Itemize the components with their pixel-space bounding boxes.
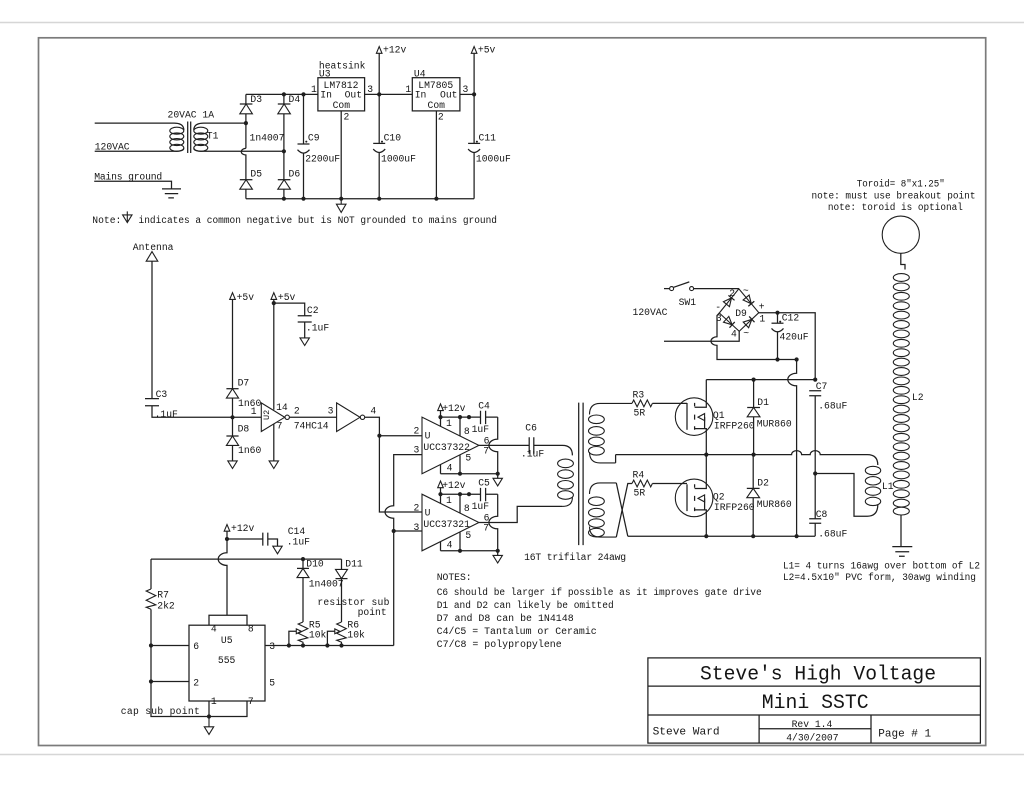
node pin1 rail U2: [438, 492, 442, 496]
title block: [648, 658, 981, 744]
L1 L2 notes: [783, 560, 980, 583]
switch SW1: [664, 282, 696, 308]
svg-text:4: 4: [447, 462, 453, 473]
svg-text:4: 4: [211, 624, 217, 635]
power +12v arrow (UCC37321): [438, 480, 466, 494]
node C9 top rail: [301, 92, 305, 96]
svg-text:R7: R7: [157, 590, 169, 601]
svg-text:4: 4: [447, 539, 453, 550]
svg-text:L1= 4 turns 16awg over bottom: L1= 4 turns 16awg over bottom of L2: [783, 560, 980, 571]
power +12v arrow (555): [224, 523, 254, 539]
svg-text:C4: C4: [478, 400, 490, 411]
capacitor C10 1000uF: [373, 94, 416, 197]
120VAC mains label: [633, 307, 668, 318]
node pin5 rail U2: [458, 549, 462, 553]
resistor R3 5R: [632, 390, 652, 419]
node R5 wiper rail: [287, 643, 291, 647]
svg-text:D7 and D8 can be 1N4148: D7 and D8 can be 1N4148: [437, 613, 574, 624]
regulator U4 LM7805: [405, 68, 468, 122]
svg-text:5: 5: [269, 678, 275, 689]
svg-text:IRFP260: IRFP260: [714, 502, 755, 513]
node 555 ground: [207, 714, 211, 718]
svg-text:1uF: 1uF: [472, 501, 490, 512]
svg-text:D3: D3: [250, 94, 262, 105]
svg-text:2: 2: [414, 426, 420, 437]
node C9 bottom rail: [301, 197, 305, 201]
svg-text:heatsink: heatsink: [319, 60, 366, 71]
svg-text:3: 3: [367, 84, 373, 95]
svg-text:-: -: [715, 302, 721, 313]
gate driver U2 UCC37321: [414, 494, 490, 551]
svg-text:L1: L1: [882, 481, 894, 492]
gate driver U1 UCC37322: [414, 417, 490, 474]
node pin5 rail: [458, 472, 462, 476]
svg-text:1000uF: 1000uF: [476, 154, 511, 165]
svg-text:C9: C9: [308, 132, 320, 143]
capacitor C8 .68uF: [809, 474, 847, 540]
ground C2 common negative: [300, 338, 309, 346]
svg-text:C11: C11: [479, 132, 497, 143]
wire toroid to L2: [901, 253, 905, 269]
toroid topload: [812, 178, 976, 253]
svg-text:C12: C12: [782, 313, 800, 324]
svg-text:D1 and D2 can likely be omitte: D1 and D2 can likely be omitted: [437, 600, 614, 611]
wire 555 enable riser with hop: [385, 455, 422, 646]
capacitor C14 .1uF: [227, 526, 310, 548]
svg-text:note: must use breakout point: note: must use breakout point: [812, 191, 976, 202]
wire UCC37321 vcc rail: [441, 493, 498, 495]
svg-text:SW1: SW1: [679, 297, 697, 308]
svg-text:10k: 10k: [309, 630, 327, 641]
wire common negative bottom rail: [246, 198, 474, 200]
wire 120VAC primary top: [95, 123, 184, 130]
node D10 top: [301, 557, 305, 561]
faint top window line: [0, 22, 1024, 24]
inverter U2A 74HC14: [251, 402, 329, 461]
svg-text:1: 1: [446, 495, 452, 506]
antenna: [133, 242, 174, 398]
wire bridge negative with hop over mains return: [711, 313, 797, 360]
svg-text:5: 5: [465, 453, 471, 464]
svg-text:U5: U5: [221, 635, 233, 646]
svg-text:5R: 5R: [634, 488, 646, 499]
transformer GDT secondary bottom: [589, 483, 617, 537]
wire enable to UCC37321 pin3: [394, 530, 422, 532]
diode D4 1n4007: [278, 94, 301, 180]
wire R4 to Q2 gate: [652, 483, 687, 485]
svg-text:1: 1: [759, 313, 765, 324]
svg-text:5R: 5R: [634, 407, 646, 418]
node enable to UCC37321 pin3: [392, 529, 396, 533]
wire C5 bypass down with hop: [489, 494, 498, 555]
svg-text:IRFP260: IRFP260: [714, 421, 755, 432]
wire T1 secondary bottom to bridge (passes under hop): [194, 149, 284, 152]
wire UCC37322 vcc rail: [441, 416, 498, 418]
svg-text:+5v: +5v: [478, 45, 496, 56]
svg-text:MUR860: MUR860: [757, 499, 792, 510]
svg-text:120VAC: 120VAC: [633, 307, 668, 318]
node pin1 rail: [438, 415, 442, 419]
node R5 bottom rail: [301, 643, 305, 647]
capacitor C11 1000uF: [468, 94, 511, 198]
svg-text:C2: C2: [307, 305, 319, 316]
svg-text:Out: Out: [440, 90, 457, 101]
mains earth ground symbol: [162, 189, 181, 198]
node R6 wiper rail: [325, 643, 329, 647]
svg-text:~: ~: [743, 328, 749, 339]
svg-text:8: 8: [464, 503, 470, 514]
svg-text:4: 4: [731, 329, 737, 340]
svg-text:point: point: [358, 607, 387, 618]
power +5v arrow (logic): [271, 292, 296, 303]
wire C4 bypass down with hop: [489, 417, 498, 478]
svg-text:7: 7: [483, 446, 489, 457]
svg-text:2: 2: [438, 111, 444, 122]
ground UCC37321 common negative: [493, 555, 502, 563]
capacitor C4 1uF: [472, 400, 490, 435]
wire U4 com down: [435, 111, 437, 199]
wire 120VAC return to bridge pin4: [664, 331, 739, 341]
svg-text:UCC37322: UCC37322: [423, 442, 470, 453]
svg-text:3: 3: [328, 406, 334, 417]
svg-text:+12v: +12v: [442, 403, 465, 414]
svg-text:In: In: [320, 90, 332, 101]
svg-text:6: 6: [193, 641, 199, 652]
wire UCC37321 output to GDT: [479, 506, 563, 522]
svg-text:20VAC 1A: 20VAC 1A: [168, 109, 215, 120]
node pin6 junction: [149, 643, 153, 647]
svg-text:NOTES:: NOTES:: [437, 572, 472, 583]
earth ground L2: [892, 547, 912, 557]
svg-text:In: In: [415, 90, 427, 101]
node D6 bottom rail: [282, 197, 286, 201]
svg-text:indicates a common negative bu: indicates a common negative but is NOT g…: [139, 215, 498, 226]
capacitor C3 .1uF: [145, 389, 261, 420]
svg-text:10k: 10k: [347, 630, 365, 641]
diode D2 MUR860: [747, 455, 792, 537]
svg-text:U4: U4: [414, 68, 426, 79]
common negative symbol below rail: [336, 199, 346, 213]
svg-text:7: 7: [248, 696, 254, 707]
wire C6 to GDT primary: [534, 445, 573, 455]
svg-text:D5: D5: [250, 169, 262, 180]
node D1 bottom mid rail: [752, 453, 756, 457]
svg-text:1n60: 1n60: [238, 445, 261, 456]
wire negative feed down with hop over positive bus: [788, 360, 797, 537]
ground pin7 common negative: [269, 461, 278, 469]
node secondary top / D3: [244, 121, 248, 125]
svg-text:1: 1: [446, 418, 452, 429]
capacitor C2 .1uF: [274, 303, 330, 338]
wire U3 com down: [340, 111, 342, 199]
ground UCC37322 common negative: [493, 478, 502, 486]
svg-text:8: 8: [248, 624, 254, 635]
node U4 com at rail: [434, 197, 438, 201]
node drive signal branch: [377, 434, 381, 438]
diode D11 1n4007: [309, 558, 363, 622]
wire bridge positive to C7 corner: [759, 313, 815, 380]
svg-text:2: 2: [729, 288, 735, 299]
power +5v arrow (clamp): [230, 292, 255, 389]
node C12 top: [775, 311, 779, 315]
power +5v arrow top: [471, 45, 495, 95]
svg-text:2: 2: [294, 406, 300, 417]
wire drive to UCC37322 pin2: [379, 435, 422, 437]
node Q1 source mid rail: [704, 453, 708, 457]
diode D7 1n60: [226, 377, 261, 417]
node bridge negative at bus: [795, 534, 799, 538]
svg-text:Antenna: Antenna: [133, 242, 174, 253]
svg-text:8: 8: [464, 426, 470, 437]
transformer GDT core: [524, 403, 626, 563]
node C7 C8 midpoint: [813, 471, 817, 475]
svg-text:2: 2: [344, 111, 350, 122]
resistor R7 2k2: [146, 559, 175, 645]
svg-text:1000uF: 1000uF: [381, 154, 416, 165]
node Q2 source negative bus: [704, 534, 708, 538]
svg-text:120VAC: 120VAC: [95, 142, 130, 153]
svg-text:3: 3: [414, 522, 420, 533]
wire inverter1 out to inverter2 in: [289, 416, 336, 418]
wire +12v down to 555 with hop: [218, 539, 227, 615]
node pin8 rail: [458, 415, 462, 419]
svg-text:7: 7: [277, 420, 283, 431]
wire inverter2 out down to drivers: [365, 417, 422, 512]
svg-text:1n4007: 1n4007: [250, 133, 285, 144]
svg-text:Com: Com: [428, 100, 446, 111]
wire R7 to 555 pin6: [151, 645, 189, 647]
svg-text:Rev 1.4: Rev 1.4: [792, 719, 833, 730]
wire crossover to negative bus: [616, 483, 628, 536]
node positive bus / C7: [813, 378, 817, 382]
wire U4 out to +5v node: [460, 93, 474, 95]
svg-text:C7/C8 = polypropylene: C7/C8 = polypropylene: [437, 639, 562, 650]
svg-text:2200uF: 2200uF: [305, 154, 340, 165]
wire R3 to Q1 gate: [652, 402, 687, 404]
wire crossover to R4: [616, 484, 632, 538]
svg-text:D10: D10: [306, 558, 324, 569]
node +5v branch to C2: [272, 301, 276, 305]
svg-text:C3: C3: [156, 389, 168, 400]
potentiometer R6 10k: [327, 620, 365, 646]
mosfet Q1 IRFP260: [675, 380, 754, 455]
faint bottom window line: [0, 754, 1024, 756]
svg-text:U: U: [425, 507, 431, 518]
wire T1 secondary top to bridge: [194, 123, 246, 130]
wire bias rail R7 to D11: [151, 558, 342, 560]
svg-text:C5: C5: [478, 477, 490, 488]
wire hop D3-D5 branch over secondary-bottom wire: [241, 148, 246, 179]
svg-text:D6: D6: [289, 169, 301, 180]
node +12v rail: [377, 92, 381, 96]
node antenna wire / clamp: [230, 415, 234, 419]
node U3 com at rail: [339, 197, 343, 201]
node +12v to C14: [225, 537, 229, 541]
capacitor C6 .1uF: [521, 423, 544, 460]
ground 555 common negative: [204, 717, 213, 735]
wire raw DC top rail: [246, 93, 318, 95]
wire UCC37322 output: [479, 444, 529, 446]
svg-text:Q1: Q1: [713, 410, 725, 421]
svg-text:+12v: +12v: [383, 45, 406, 56]
svg-text:U2: U2: [262, 410, 272, 420]
svg-text:2: 2: [193, 678, 199, 689]
svg-text:cap sub point: cap sub point: [121, 706, 200, 717]
svg-text:D9: D9: [735, 308, 747, 319]
svg-text:+: +: [759, 302, 765, 313]
node D4 top rail: [282, 92, 286, 96]
svg-text:D11: D11: [345, 558, 363, 569]
svg-text:5: 5: [465, 530, 471, 541]
svg-text:~: ~: [743, 286, 749, 297]
power +12v arrow top: [376, 45, 406, 95]
bridge rectifier D9: [715, 286, 765, 340]
wire SW1 to bridge: [694, 288, 739, 290]
svg-text:+5v: +5v: [237, 292, 255, 303]
inductor L2 secondary coil: [893, 274, 923, 515]
resistor sub point label: [317, 597, 389, 618]
svg-text:+5v: +5v: [278, 292, 296, 303]
wire UCC37322 gnd rail: [441, 473, 498, 475]
svg-text:4: 4: [370, 406, 376, 417]
svg-text:L2: L2: [912, 392, 924, 403]
diode D3 1n4007: [240, 94, 262, 149]
svg-text:3: 3: [414, 445, 420, 456]
diode D8 1n60: [226, 417, 261, 461]
power +12v arrow (UCC37322): [438, 403, 466, 417]
node negative feed corner: [795, 357, 799, 361]
svg-text:1: 1: [311, 84, 317, 95]
wire negative bus rail: [628, 535, 815, 537]
svg-text:Page # 1: Page # 1: [878, 729, 931, 741]
svg-text:.1uF: .1uF: [306, 323, 329, 334]
svg-text:1: 1: [251, 406, 257, 417]
node gnd rail corner U2: [496, 549, 500, 553]
node rail C5: [467, 492, 471, 496]
wire GDT top secondary to mid rail: [615, 455, 617, 463]
svg-text:14: 14: [276, 402, 288, 413]
capacitor C9 2200uF: [298, 94, 341, 198]
mosfet Q2 IRFP260: [675, 455, 754, 537]
node gnd rail corner: [496, 472, 500, 476]
wire 555 pin3 output rail: [265, 645, 394, 647]
svg-text:Steve Ward: Steve Ward: [653, 727, 720, 739]
svg-text:+12v: +12v: [442, 480, 465, 491]
svg-text:D4: D4: [289, 94, 301, 105]
node D2 bottom negative bus: [751, 534, 755, 538]
node R6 bottom rail: [339, 643, 343, 647]
wire U3 out to U4 in: [365, 93, 413, 95]
svg-text:D8: D8: [238, 423, 250, 434]
svg-text:note: toroid is optional: note: toroid is optional: [828, 202, 963, 213]
svg-text:Toroid= 8"x1.25": Toroid= 8"x1.25": [857, 178, 945, 189]
transformer T1: [168, 109, 219, 153]
svg-text:1n4007: 1n4007: [309, 579, 344, 590]
svg-text:3: 3: [463, 84, 469, 95]
node +5v rail: [472, 92, 476, 96]
svg-text:420uF: 420uF: [780, 332, 809, 343]
transformer GDT secondary top: [589, 403, 633, 463]
diode D1 MUR860: [747, 380, 792, 455]
wire L2 bottom to earth: [900, 515, 902, 547]
svg-text:Note:: Note:: [92, 215, 121, 226]
NOTES text block: [437, 572, 762, 650]
svg-text:C7: C7: [816, 381, 828, 392]
capacitor C7 .68uF: [809, 381, 847, 473]
svg-text:Out: Out: [345, 90, 362, 101]
ground C14 common negative: [273, 546, 282, 554]
node pin2 junction: [149, 679, 153, 683]
svg-text:C6 should be larger if possibl: C6 should be larger if possible as it im…: [437, 587, 762, 598]
svg-text:Mini SSTC: Mini SSTC: [762, 692, 869, 715]
inductor L1 primary coil: [815, 466, 894, 516]
svg-text:7: 7: [483, 523, 489, 534]
svg-text:U: U: [425, 430, 431, 441]
diode D6 1n4007: [250, 133, 301, 199]
svg-text:.1uF: .1uF: [287, 537, 310, 548]
svg-text:R3: R3: [633, 390, 645, 401]
svg-text:1: 1: [211, 696, 217, 707]
svg-text:Steve's High Voltage: Steve's High Voltage: [700, 664, 936, 687]
svg-text:L2=4.5x10" PVC form, 30awg win: L2=4.5x10" PVC form, 30awg winding: [783, 572, 976, 583]
svg-text:.68uF: .68uF: [818, 400, 847, 411]
svg-text:.68uF: .68uF: [818, 528, 847, 539]
svg-text:1uF: 1uF: [472, 424, 490, 435]
regulator U3 LM7812: [311, 60, 373, 122]
svg-text:16T trifilar 24awg: 16T trifilar 24awg: [524, 552, 626, 563]
timer U5 555: [189, 615, 275, 716]
svg-text:C10: C10: [384, 132, 402, 143]
svg-text:2k2: 2k2: [157, 601, 175, 612]
svg-text:1: 1: [405, 84, 411, 95]
svg-text:74HC14: 74HC14: [294, 420, 329, 431]
diode D5 1n4007: [240, 169, 262, 199]
svg-text:D1: D1: [757, 397, 769, 408]
potentiometer R5 10k: [289, 620, 327, 646]
svg-text:Q2: Q2: [713, 492, 725, 503]
svg-text:D7: D7: [238, 377, 250, 388]
svg-text:D2: D2: [757, 478, 769, 489]
diode D10 1n4007: [297, 558, 324, 622]
svg-text:C6: C6: [525, 423, 537, 434]
svg-text:2: 2: [414, 503, 420, 514]
note common negative text: [92, 211, 497, 225]
wire positive bus rail: [706, 379, 815, 381]
node C10 bottom rail: [377, 197, 381, 201]
Mains ground label: [94, 172, 171, 189]
wire half-bridge mid rail with hops: [616, 451, 878, 465]
wire cap sub point to pins 1 7: [121, 682, 209, 718]
node D1 top: [752, 378, 756, 382]
node secondary bottom / D4: [282, 149, 286, 153]
svg-text:MUR860: MUR860: [757, 418, 792, 429]
node rail C4: [467, 415, 471, 419]
wire UCC37321 gnd rail: [441, 550, 498, 552]
wire R7 to 555 pin2: [151, 646, 189, 682]
svg-text:UCC37321: UCC37321: [423, 519, 470, 530]
resistor R4 5R: [632, 470, 652, 499]
svg-text:C4/C5 = Tantalum or Ceramic: C4/C5 = Tantalum or Ceramic: [437, 626, 597, 637]
svg-text:.1uF: .1uF: [521, 449, 544, 460]
node pin8 rail U2: [458, 492, 462, 496]
node C12 bottom: [775, 357, 779, 361]
svg-text:555: 555: [218, 655, 236, 666]
svg-text:4/30/2007: 4/30/2007: [786, 733, 839, 744]
ground D8 common negative: [228, 461, 237, 469]
transformer GDT primary winding: [558, 459, 574, 506]
wire +5v to pin 14: [273, 303, 275, 410]
svg-text:C8: C8: [816, 509, 828, 520]
